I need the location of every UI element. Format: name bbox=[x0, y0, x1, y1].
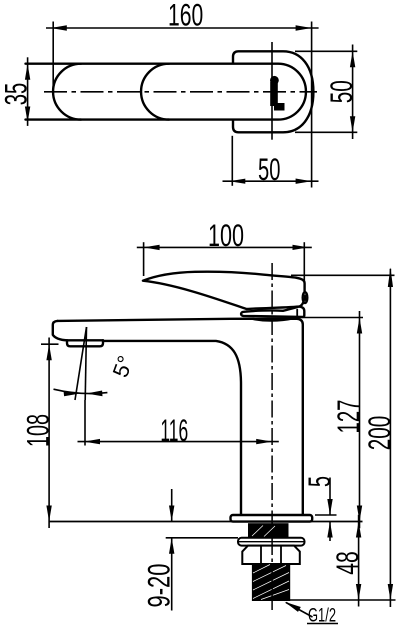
arrow 5 top (down) bbox=[327, 499, 332, 515]
ext 9-20 washer top bbox=[166, 537, 238, 539]
angle arc bbox=[54, 389, 108, 393]
ext 100 left bbox=[143, 242, 145, 276]
collar under handle bbox=[241, 306, 304, 317]
handle end button dark center bbox=[304, 294, 307, 301]
ext 50 right top bbox=[295, 50, 357, 52]
collar seam arc bbox=[249, 318, 295, 321]
arrow 50r top bbox=[350, 51, 355, 67]
dim line 48 bbox=[358, 515, 360, 607]
ext 50 right bottom bbox=[295, 131, 357, 133]
arrow 116 left bbox=[84, 439, 100, 444]
arrow angle right bbox=[86, 391, 102, 397]
angle line A bbox=[85, 327, 86, 400]
arrow 50b right bbox=[296, 179, 312, 184]
handle top view bbox=[53, 64, 306, 120]
centerline vertical top view bbox=[271, 42, 273, 140]
arrow 200 top bbox=[388, 268, 393, 288]
ext 50 bottom left bbox=[231, 136, 233, 186]
arrow 48 bottom bbox=[356, 584, 361, 600]
spout and column outline bbox=[58, 319, 303, 515]
spout outlet bbox=[67, 340, 103, 346]
dim line 160 bbox=[46, 27, 319, 29]
arrow 9-20 bottom (up) bbox=[169, 538, 174, 554]
underside of spout and fillet to column bbox=[103, 341, 241, 515]
arrow 5 bottom (up) bbox=[327, 522, 332, 538]
ext 200/48 bottom bbox=[288, 599, 396, 601]
spout outlet seam bbox=[67, 339, 103, 341]
arrow 100 right bbox=[293, 245, 309, 250]
arrow G12 leader bbox=[285, 602, 301, 612]
extension line 35 bottom bbox=[26, 118, 82, 120]
arrow 127 bottom bbox=[357, 506, 362, 522]
arrow 35 bottom bbox=[25, 107, 30, 123]
svg-text:G1/2: G1/2 bbox=[308, 605, 336, 627]
dim line 200 bbox=[389, 269, 391, 607]
faucet body top view bbox=[233, 51, 313, 132]
aerator mark top view bbox=[270, 76, 285, 111]
ext 116 left bbox=[84, 400, 86, 446]
svg-text:50: 50 bbox=[258, 151, 280, 187]
arrow 50b left bbox=[229, 179, 245, 184]
svg-text:9-20: 9-20 bbox=[140, 564, 176, 608]
ext 100 right bbox=[303, 242, 305, 283]
dim line 35 bbox=[27, 57, 29, 126]
dim line 116 bbox=[78, 441, 279, 443]
ext 127 top bbox=[298, 317, 363, 319]
G12 leader line bbox=[286, 603, 313, 618]
lever handle front view bbox=[143, 272, 305, 309]
extension line 35 top (collinear with handle) bbox=[26, 63, 82, 65]
svg-text:200: 200 bbox=[361, 416, 397, 451]
arrow 9-20 top (down) bbox=[169, 506, 174, 522]
ext 160 right / 50 bottom right bbox=[311, 22, 313, 188]
arrow angle left bbox=[64, 391, 80, 397]
arrow 108 top bbox=[46, 344, 51, 360]
arrow 127 top bbox=[357, 318, 362, 334]
threaded shank below counter bbox=[248, 523, 289, 538]
G12 underline bbox=[307, 623, 338, 625]
arrow 160 left bbox=[51, 25, 67, 30]
arrow 116 right bbox=[256, 439, 272, 444]
dim line 9-20 upper bbox=[171, 489, 173, 522]
dim line 50 bottom bbox=[223, 180, 319, 182]
collar right seam bbox=[296, 310, 298, 319]
dim line 108 bbox=[48, 338, 50, 529]
svg-text:116: 116 bbox=[160, 412, 188, 448]
counter mounting line bbox=[49, 521, 363, 523]
arrow 35 top bbox=[25, 64, 30, 80]
washer bbox=[238, 538, 305, 546]
arrow 200 bottom bbox=[388, 584, 393, 600]
dim line 127 bbox=[359, 311, 361, 528]
arrow 48 top bbox=[356, 522, 361, 538]
ext 160 left bbox=[52, 22, 54, 96]
handle end button bbox=[303, 292, 308, 303]
svg-text:5: 5 bbox=[301, 476, 337, 487]
dim line 100 bbox=[137, 246, 312, 248]
dim line 5 lower bbox=[329, 522, 331, 542]
svg-text:108: 108 bbox=[19, 414, 55, 447]
dim line 5 upper bbox=[329, 478, 331, 516]
svg-text:50: 50 bbox=[323, 80, 359, 103]
ext 5 top bbox=[315, 514, 337, 516]
svg-text:48: 48 bbox=[329, 551, 365, 575]
angle line B bbox=[75, 327, 87, 400]
centerline vertical front view bbox=[271, 263, 273, 613]
spout barrel left cap top view bbox=[141, 64, 169, 120]
svg-text:160: 160 bbox=[168, 0, 203, 33]
threaded pipe bbox=[252, 564, 289, 601]
dim line 50 right bbox=[352, 45, 354, 140]
arrow 50r bottom bbox=[350, 116, 355, 132]
base plate bbox=[231, 515, 313, 522]
centerline horizontal top view bbox=[44, 91, 317, 93]
svg-text:100: 100 bbox=[208, 217, 244, 253]
dim line 9-20 lower bbox=[171, 538, 173, 611]
arrow 108 bottom bbox=[46, 506, 51, 522]
lock nut bbox=[242, 546, 299, 564]
ext 108 top bbox=[41, 343, 59, 345]
arrow 100 left bbox=[144, 245, 160, 250]
ext 200 top bbox=[291, 274, 395, 276]
svg-text:35: 35 bbox=[0, 83, 34, 106]
arrow 160 right bbox=[296, 25, 312, 30]
